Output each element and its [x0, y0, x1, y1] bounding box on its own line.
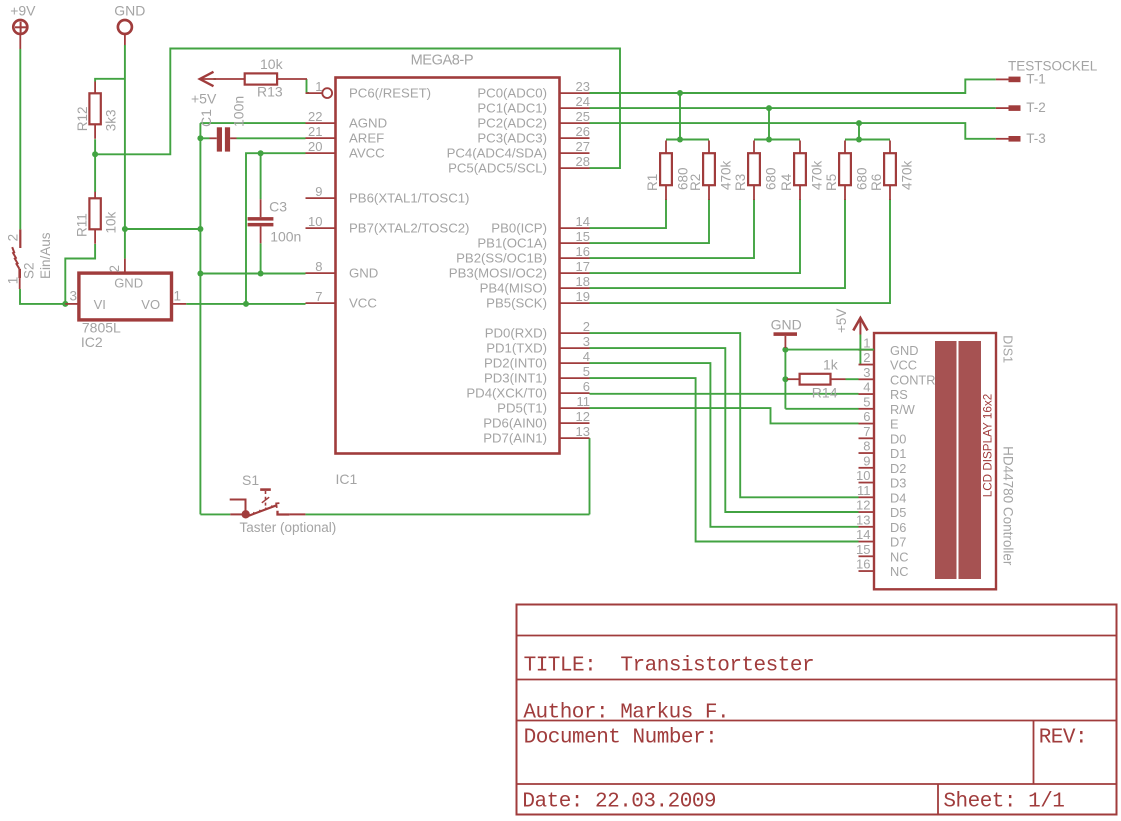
svg-text:PB0(ICP): PB0(ICP) — [491, 221, 547, 236]
svg-text:19: 19 — [576, 289, 590, 304]
svg-text:CONTR: CONTR — [890, 372, 936, 387]
svg-text:10: 10 — [308, 214, 322, 229]
svg-text:PB7(XTAL2/TOSC2): PB7(XTAL2/TOSC2) — [349, 221, 469, 236]
svg-text:Author: Markus F.: Author: Markus F. — [523, 701, 729, 724]
svg-text:HD44780 Controller: HD44780 Controller — [1000, 446, 1015, 566]
svg-text:VO: VO — [141, 297, 160, 312]
svg-text:10k: 10k — [104, 211, 119, 233]
svg-text:Date: 22.03.2009: Date: 22.03.2009 — [522, 790, 716, 813]
svg-text:R6: R6 — [869, 174, 884, 191]
svg-text:PD5(T1): PD5(T1) — [497, 401, 547, 416]
svg-text:1: 1 — [315, 79, 322, 94]
svg-text:TITLE: Transistortester: TITLE: Transistortester — [524, 655, 814, 678]
svg-text:R12: R12 — [75, 107, 90, 132]
svg-text:26: 26 — [576, 124, 590, 139]
svg-text:3: 3 — [863, 365, 870, 380]
svg-text:PC3(ADC3): PC3(ADC3) — [477, 131, 547, 146]
svg-text:3k3: 3k3 — [103, 110, 118, 132]
svg-text:GND: GND — [890, 343, 918, 358]
svg-text:MEGA8-P: MEGA8-P — [411, 53, 474, 69]
svg-text:PC4(ADC4/SDA): PC4(ADC4/SDA) — [447, 146, 547, 161]
svg-text:PB4(MISO): PB4(MISO) — [480, 281, 547, 296]
svg-text:D2: D2 — [890, 461, 906, 476]
svg-text:1: 1 — [174, 288, 182, 303]
svg-text:PC1(ADC1): PC1(ADC1) — [477, 101, 547, 116]
svg-text:7805L: 7805L — [82, 319, 121, 335]
svg-text:8: 8 — [315, 259, 322, 274]
svg-text:R2: R2 — [688, 174, 703, 191]
svg-text:+5V: +5V — [191, 90, 217, 106]
svg-text:R4: R4 — [779, 173, 794, 191]
svg-text:S2: S2 — [22, 262, 37, 279]
svg-text:2: 2 — [6, 234, 21, 242]
svg-text:PD2(INT0): PD2(INT0) — [484, 356, 547, 371]
svg-text:Document Number:: Document Number: — [524, 726, 718, 749]
svg-text:1k: 1k — [823, 357, 839, 373]
svg-text:14: 14 — [576, 214, 590, 229]
svg-text:IC2: IC2 — [81, 334, 103, 350]
svg-text:11: 11 — [857, 483, 871, 498]
svg-text:GND: GND — [771, 317, 802, 333]
svg-text:LCD DISPLAY 16x2: LCD DISPLAY 16x2 — [981, 394, 994, 498]
svg-text:T-1: T-1 — [1026, 71, 1046, 86]
svg-text:VCC: VCC — [890, 358, 917, 373]
svg-text:PD3(INT1): PD3(INT1) — [484, 371, 547, 386]
svg-text:RS: RS — [890, 387, 908, 402]
svg-text:PD1(TXD): PD1(TXD) — [486, 341, 547, 356]
svg-text:2: 2 — [583, 319, 590, 334]
svg-text:27: 27 — [576, 139, 590, 154]
svg-text:9: 9 — [863, 453, 870, 468]
svg-text:21: 21 — [308, 124, 322, 139]
svg-text:10k: 10k — [260, 56, 284, 72]
svg-text:100n: 100n — [270, 229, 301, 245]
svg-text:Ein/Aus: Ein/Aus — [38, 232, 53, 279]
svg-text:R11: R11 — [75, 213, 90, 237]
svg-text:T-2: T-2 — [1026, 100, 1046, 115]
svg-text:PB3(MOSI/OC2): PB3(MOSI/OC2) — [449, 266, 547, 281]
svg-text:PC0(ADC0): PC0(ADC0) — [477, 86, 547, 101]
svg-text:4: 4 — [863, 380, 870, 395]
svg-text:AGND: AGND — [349, 116, 387, 131]
svg-text:Sheet: 1/1: Sheet: 1/1 — [943, 790, 1064, 813]
svg-text:5: 5 — [863, 394, 870, 409]
svg-text:20: 20 — [308, 139, 322, 154]
svg-text:D4: D4 — [890, 490, 906, 505]
svg-text:10: 10 — [856, 468, 870, 483]
svg-text:R13: R13 — [257, 84, 283, 100]
svg-text:R/W: R/W — [890, 402, 916, 417]
svg-text:D7: D7 — [890, 535, 906, 550]
svg-text:D3: D3 — [890, 476, 906, 491]
svg-text:R3: R3 — [733, 174, 748, 191]
svg-text:C3: C3 — [269, 199, 287, 215]
svg-text:D6: D6 — [890, 520, 906, 535]
svg-text:28: 28 — [576, 154, 590, 169]
svg-text:1: 1 — [863, 335, 870, 350]
svg-text:6: 6 — [583, 379, 590, 394]
svg-text:R14: R14 — [812, 385, 838, 401]
svg-text:7: 7 — [315, 289, 322, 304]
svg-text:11: 11 — [577, 394, 591, 409]
svg-text:PC6(/RESET): PC6(/RESET) — [349, 86, 431, 101]
svg-text:680: 680 — [763, 167, 778, 190]
svg-text:PB5(SCK): PB5(SCK) — [486, 296, 547, 311]
svg-text:22: 22 — [308, 109, 322, 124]
svg-text:PD7(AIN1): PD7(AIN1) — [483, 431, 547, 446]
svg-text:13: 13 — [576, 424, 590, 439]
svg-text:E: E — [890, 417, 899, 432]
svg-text:6: 6 — [863, 409, 870, 424]
svg-text:470k: 470k — [809, 160, 824, 190]
svg-text:GND: GND — [349, 266, 378, 281]
svg-text:PC5(ADC5/SCL): PC5(ADC5/SCL) — [448, 161, 547, 176]
svg-text:PD4(XCK/T0): PD4(XCK/T0) — [466, 386, 547, 401]
svg-text:+9V: +9V — [10, 3, 36, 19]
svg-text:17: 17 — [576, 259, 590, 274]
svg-text:24: 24 — [576, 94, 590, 109]
svg-text:2: 2 — [863, 350, 870, 365]
svg-text:T-3: T-3 — [1026, 131, 1046, 146]
svg-text:1: 1 — [6, 277, 21, 285]
svg-text:NC: NC — [890, 549, 908, 564]
svg-text:PD0(RXD): PD0(RXD) — [485, 326, 547, 341]
svg-text:680: 680 — [854, 167, 869, 190]
svg-text:7: 7 — [863, 424, 870, 439]
svg-text:12: 12 — [576, 409, 590, 424]
svg-text:16: 16 — [856, 557, 870, 572]
svg-text:REV:: REV: — [1039, 726, 1087, 749]
svg-text:4: 4 — [583, 349, 590, 364]
svg-text:+5V: +5V — [834, 309, 849, 333]
svg-text:NC: NC — [890, 564, 908, 579]
svg-text:DIS1: DIS1 — [1000, 335, 1014, 363]
svg-text:C1: C1 — [198, 109, 214, 127]
svg-text:16: 16 — [576, 244, 590, 259]
svg-text:14: 14 — [856, 527, 870, 542]
svg-text:R5: R5 — [824, 174, 839, 191]
svg-text:D1: D1 — [890, 446, 906, 461]
svg-text:100n: 100n — [231, 96, 247, 127]
svg-text:18: 18 — [576, 274, 590, 289]
svg-text:9: 9 — [315, 184, 322, 199]
svg-text:S1: S1 — [242, 472, 259, 488]
svg-text:8: 8 — [863, 439, 870, 454]
svg-text:Taster (optional): Taster (optional) — [240, 520, 337, 535]
svg-text:25: 25 — [576, 109, 590, 124]
svg-text:15: 15 — [576, 229, 590, 244]
svg-text:PB1(OC1A): PB1(OC1A) — [477, 236, 547, 251]
svg-text:3: 3 — [69, 288, 77, 303]
svg-text:TESTSOCKEL: TESTSOCKEL — [1008, 58, 1098, 73]
svg-text:VI: VI — [94, 297, 106, 312]
svg-text:IC1: IC1 — [336, 471, 358, 487]
svg-text:13: 13 — [856, 512, 870, 527]
svg-text:PD6(AIN0): PD6(AIN0) — [483, 416, 547, 431]
svg-text:GND: GND — [114, 276, 143, 291]
svg-text:D0: D0 — [890, 431, 906, 446]
svg-text:GND: GND — [114, 3, 145, 19]
svg-text:PB2(SS/OC1B): PB2(SS/OC1B) — [456, 251, 547, 266]
svg-text:AVCC: AVCC — [349, 146, 385, 161]
svg-text:12: 12 — [856, 498, 870, 513]
svg-text:R1: R1 — [645, 174, 660, 191]
svg-text:5: 5 — [583, 364, 590, 379]
svg-text:3: 3 — [583, 334, 590, 349]
svg-text:D5: D5 — [890, 505, 906, 520]
svg-text:VCC: VCC — [349, 296, 377, 311]
svg-text:15: 15 — [856, 542, 870, 557]
svg-text:470k: 470k — [899, 160, 914, 190]
svg-text:470k: 470k — [718, 160, 733, 190]
svg-text:23: 23 — [576, 79, 590, 94]
svg-text:PC2(ADC2): PC2(ADC2) — [477, 116, 547, 131]
svg-text:AREF: AREF — [349, 131, 384, 146]
svg-text:PB6(XTAL1/TOSC1): PB6(XTAL1/TOSC1) — [349, 191, 469, 206]
svg-text:2: 2 — [107, 265, 122, 273]
